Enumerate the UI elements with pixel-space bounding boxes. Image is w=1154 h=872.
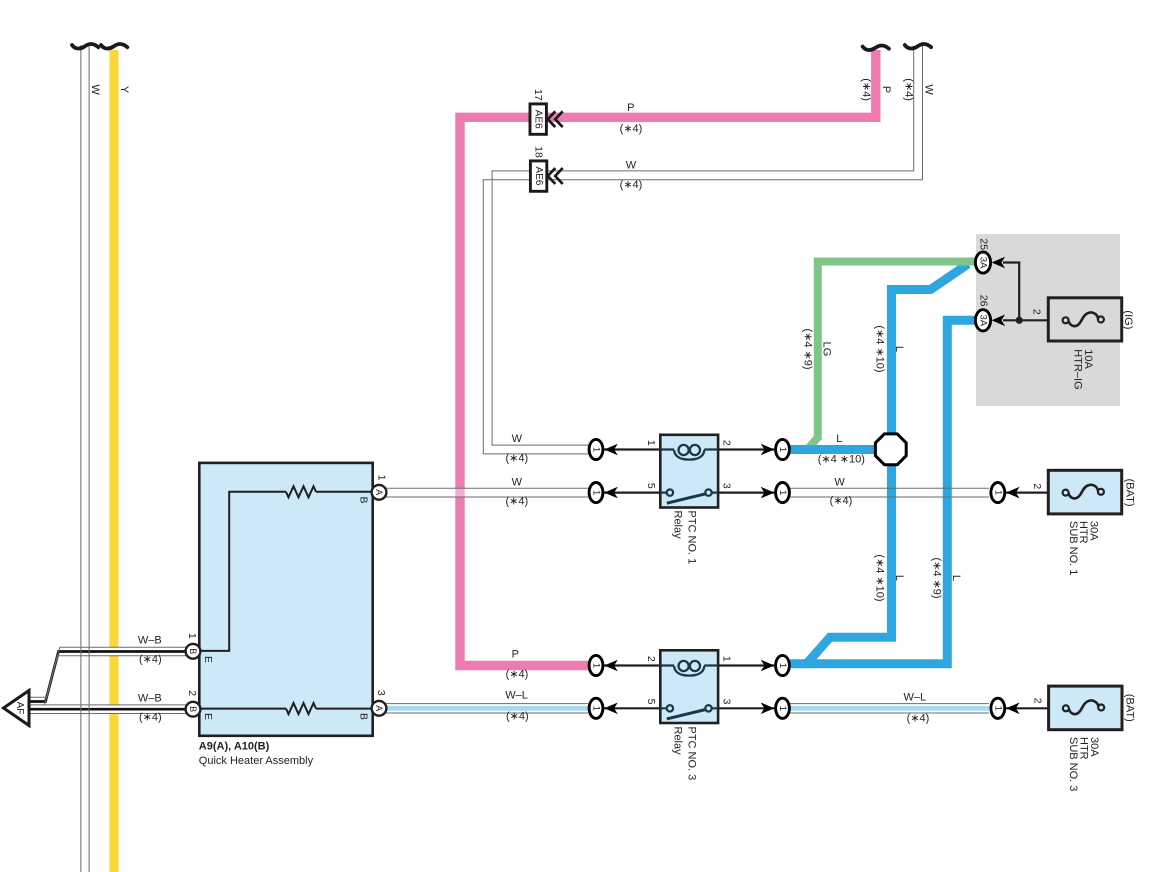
svg-text:A9(A), A10(B): A9(A), A10(B) — [199, 741, 270, 753]
svg-text:W: W — [626, 160, 637, 172]
connector oval relay1 pin1 left — [589, 439, 603, 459]
svg-text:W–B: W–B — [138, 693, 162, 705]
wire L blue: relay3 pin1 oval right and up to terminal 26 — [790, 320, 975, 664]
svg-text:(∗4 ∗10): (∗4 ∗10) — [818, 453, 865, 465]
junction block J/B (IG) gray area — [976, 234, 1120, 406]
svg-text:26: 26 — [977, 295, 989, 307]
arrow into relay3 right top — [761, 660, 775, 672]
chevrons AE6 18 — [548, 168, 563, 184]
wire P pink: from top break down-left to AE6-17 then down to PTC NO.3 relay row — [460, 50, 876, 666]
quick heater assembly A9/A10 box — [199, 463, 372, 736]
svg-text:L: L — [893, 575, 905, 581]
svg-text:(∗4): (∗4) — [830, 495, 853, 507]
connector oval fuse SUB NO.3 — [991, 698, 1005, 718]
svg-text:(∗4 ∗10): (∗4 ∗10) — [874, 554, 886, 601]
svg-text:5: 5 — [645, 483, 657, 489]
wire LG green: from blue L junction diagonal up and right to terminal 25 — [806, 262, 975, 452]
svg-text:1: 1 — [376, 475, 388, 481]
connector oval terminal 26 — [975, 310, 990, 331]
connector AE6 pin18 box — [530, 161, 546, 191]
svg-text:HTR–IG: HTR–IG — [1072, 349, 1084, 389]
wire W-L quick heater pin3A to relay3 pin5 oval — [385, 704, 588, 713]
wire relay3 pin2 lead — [603, 664, 661, 666]
svg-text:(∗4): (∗4) — [139, 654, 162, 666]
svg-text:W: W — [512, 477, 523, 489]
wire QH bottom internal — [201, 708, 373, 710]
arrow into terminal 25 — [992, 257, 1006, 269]
svg-text:1: 1 — [591, 447, 602, 452]
svg-text:W: W — [834, 477, 845, 489]
svg-text:1: 1 — [992, 706, 1003, 711]
arrow into relay3 left top — [604, 660, 618, 672]
svg-text:W: W — [923, 84, 935, 95]
arrow into terminal 26 — [992, 315, 1006, 327]
fuse F1 element — [1069, 313, 1099, 327]
wire QH top internal — [201, 492, 373, 651]
pin 1B quick heater — [186, 644, 201, 659]
svg-text:(∗4 ∗10): (∗4 ∗10) — [874, 325, 886, 372]
connector oval relay3 pin2 left — [589, 655, 603, 675]
svg-text:AF: AF — [14, 702, 25, 715]
wire W left vertical (band) — [81, 45, 89, 872]
svg-text:L: L — [836, 433, 842, 445]
connector oval fuse SUB NO.1 — [991, 483, 1005, 503]
svg-text:(∗4 ∗9): (∗4 ∗9) — [931, 557, 943, 598]
svg-text:PTC NO. 1: PTC NO. 1 — [686, 511, 698, 565]
svg-text:1: 1 — [186, 633, 198, 639]
switch relay3 — [660, 707, 718, 709]
svg-text:3: 3 — [721, 483, 733, 489]
connector AE6 pin17 box — [530, 104, 546, 134]
arrow into relay1 right top — [761, 444, 775, 456]
svg-text:A: A — [374, 489, 384, 495]
svg-text:(∗4): (∗4) — [506, 711, 529, 723]
svg-text:P: P — [512, 649, 519, 661]
svg-text:(∗4): (∗4) — [505, 452, 528, 464]
wire W-L relay3 pin3 oval to fuse HTR SUB NO.3 oval — [790, 704, 989, 713]
pin 3A quick heater — [372, 701, 387, 716]
svg-text:1: 1 — [645, 440, 657, 446]
svg-text:(∗4): (∗4) — [620, 179, 643, 191]
connector oval relay3 pin1 right — [776, 655, 790, 675]
chevrons AE6 17 — [548, 111, 563, 127]
white wire edge lines redrawn over colored wires — [483, 46, 922, 454]
svg-text:1: 1 — [721, 656, 733, 662]
svg-text:2: 2 — [1031, 483, 1043, 489]
svg-text:3: 3 — [721, 699, 733, 705]
svg-text:1: 1 — [591, 663, 602, 668]
pin 1A quick heater — [372, 485, 387, 500]
pin 2B quick heater — [186, 702, 201, 717]
svg-text:3: 3 — [375, 690, 387, 696]
svg-text:Relay: Relay — [672, 511, 684, 540]
svg-text:L: L — [950, 575, 962, 581]
break squiggle W right — [905, 44, 931, 49]
switch relay1 — [660, 492, 718, 494]
svg-text:2: 2 — [721, 440, 733, 446]
svg-text:Y: Y — [118, 86, 130, 94]
svg-text:A: A — [374, 705, 384, 711]
svg-text:(∗4): (∗4) — [903, 78, 915, 101]
svg-text:SUB NO. 1: SUB NO. 1 — [1067, 521, 1079, 575]
arrow into relay3 left bottom — [604, 703, 618, 715]
relay U2 PTC NO.3 box — [660, 650, 718, 723]
junction dot — [1016, 317, 1023, 324]
connector oval relay1 pin5 left — [589, 483, 603, 503]
resistor QH bottom — [286, 703, 316, 714]
relay U1 PTC NO.1 box — [660, 435, 718, 508]
resistor QH top — [286, 486, 316, 497]
connector oval relay1 pin2 right — [776, 439, 790, 459]
connector oval relay1 pin3 right — [776, 483, 790, 503]
ground connector AF triangle — [4, 691, 30, 726]
break squiggle Y — [101, 44, 127, 49]
svg-text:3A: 3A — [978, 314, 989, 326]
fuse F2 30A HTR SUB NO.1 box — [1048, 470, 1121, 514]
wire Y yellow vertical — [110, 50, 119, 872]
wire W quick heater pin1A to relay1 pin5 oval — [385, 488, 588, 496]
wire fuse SUB NO.1 pin2 lead — [1004, 492, 1049, 494]
svg-text:2: 2 — [186, 690, 198, 696]
svg-text:W: W — [89, 84, 101, 95]
connector oval terminal 25 — [975, 252, 990, 273]
svg-text:W–L: W–L — [903, 692, 926, 704]
wire relay1 pin2 lead — [717, 448, 776, 450]
wire relay1 pin1 lead — [603, 448, 661, 450]
svg-text:Quick Heater Assembly: Quick Heater Assembly — [199, 755, 314, 767]
svg-text:Relay: Relay — [672, 727, 684, 756]
svg-text:AE6: AE6 — [533, 167, 544, 186]
svg-text:L: L — [893, 346, 905, 352]
svg-text:P: P — [627, 102, 634, 114]
svg-text:5: 5 — [645, 699, 657, 705]
fuse F3 element — [1069, 701, 1099, 715]
octagon joint connector — [875, 434, 906, 465]
arrow into relay1 left bottom — [604, 487, 618, 499]
wire relay3 pin3 lead — [717, 707, 776, 709]
svg-text:(BAT): (BAT) — [1123, 479, 1135, 507]
break squiggle P — [863, 45, 889, 50]
svg-text:1: 1 — [591, 490, 602, 495]
svg-text:B: B — [188, 648, 198, 654]
wire L blue: branch from relay3 output up through octagon to terminal 25 — [805, 264, 968, 666]
svg-text:B: B — [188, 706, 198, 712]
connector oval relay3 pin3 right — [776, 698, 790, 718]
svg-text:(∗4 ∗9): (∗4 ∗9) — [802, 328, 814, 369]
svg-text:3A: 3A — [978, 257, 989, 269]
svg-text:B: B — [358, 713, 370, 720]
svg-text:(∗4): (∗4) — [620, 123, 643, 135]
svg-text:1: 1 — [591, 706, 602, 711]
svg-text:2: 2 — [1030, 309, 1042, 315]
svg-text:(∗4): (∗4) — [907, 712, 930, 724]
svg-text:LG: LG — [820, 342, 832, 357]
svg-text:18: 18 — [533, 146, 545, 158]
fuse F1 10A HTR-IG box — [1048, 298, 1121, 341]
coil relay1 — [660, 448, 718, 450]
arrow into fuse SUB NO.1 oval — [1006, 487, 1020, 499]
svg-text:P: P — [880, 86, 892, 93]
connector oval relay3 pin5 left — [589, 698, 603, 718]
svg-text:AE6: AE6 — [533, 110, 544, 129]
svg-text:(∗4): (∗4) — [139, 712, 162, 724]
svg-text:E: E — [202, 656, 214, 663]
arrow into relay3 right bottom — [761, 703, 775, 715]
svg-text:(BAT): (BAT) — [1124, 694, 1136, 722]
label 1 in ovals — [591, 447, 1004, 711]
arrow into fuse SUB NO.3 oval — [1006, 703, 1020, 715]
svg-text:PTC NO. 3: PTC NO. 3 — [686, 727, 698, 781]
svg-text:2: 2 — [1032, 698, 1044, 704]
wire W white from top break via AE6-18 down to PTC NO.1 relay pin1 (white band) — [488, 45, 918, 450]
wire terminal 25 to fuse node — [1003, 263, 1019, 321]
wire terminal 26 to fuse HTR-IG pin2 — [1003, 319, 1049, 321]
wire W relay1 pin3 oval to fuse HTR SUB NO.1 oval — [790, 488, 989, 496]
svg-text:1: 1 — [777, 706, 788, 711]
svg-text:E: E — [202, 713, 214, 720]
svg-text:2: 2 — [645, 656, 657, 662]
wire relay3 pin5 lead — [603, 707, 661, 709]
svg-text:25: 25 — [977, 238, 989, 250]
svg-text:(∗4): (∗4) — [505, 496, 528, 508]
svg-text:SUB NO. 3: SUB NO. 3 — [1067, 737, 1079, 791]
wire relay1 pin5 lead — [603, 492, 661, 494]
break squiggle W left — [72, 44, 98, 49]
wire W-B quick heater pin2B to AF triangle — [29, 705, 201, 714]
wire fuse SUB NO.3 pin2 lead — [1004, 707, 1049, 709]
svg-text:1: 1 — [777, 490, 788, 495]
svg-text:W–L: W–L — [505, 690, 528, 702]
coil relay3 — [660, 664, 718, 666]
svg-text:(∗4): (∗4) — [860, 78, 872, 101]
fuse F3 30A HTR SUB NO.3 box — [1049, 686, 1122, 730]
svg-text:(IG): (IG) — [1122, 310, 1134, 329]
svg-text:B: B — [358, 496, 370, 503]
svg-text:1: 1 — [777, 663, 788, 668]
svg-text:(∗4): (∗4) — [506, 668, 529, 680]
arrow into relay1 right bottom — [761, 487, 775, 499]
fuse F2 element — [1069, 485, 1099, 499]
wire W-B quick heater pin1B to AF triangle — [29, 652, 201, 702]
arrow into relay1 left top — [604, 444, 618, 456]
svg-text:W: W — [512, 433, 523, 445]
wire L blue: relay1 pin2 oval to octagon joint — [790, 445, 886, 454]
svg-text:17: 17 — [532, 89, 544, 101]
svg-text:1: 1 — [992, 490, 1003, 495]
svg-text:1: 1 — [777, 447, 788, 452]
wire relay1 pin3 lead — [717, 492, 776, 494]
wire relay3 pin1 lead — [717, 664, 776, 666]
svg-text:W–B: W–B — [138, 634, 162, 646]
faint pink under white wire crossing — [455, 489, 464, 497]
